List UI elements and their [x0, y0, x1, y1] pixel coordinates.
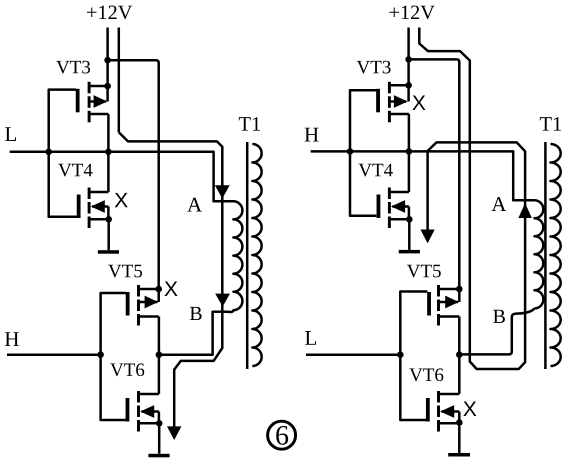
- junction VT3 drain at +12V (left): [104, 83, 111, 90]
- ground under VT4 (left): [98, 250, 119, 254]
- X mark on VT4 (left): [115, 193, 128, 207]
- transistor VT6 (left): [126, 391, 160, 432]
- node VT3/VT4 midpoint (left): [105, 149, 112, 156]
- wire +12V rail (right): [407, 28, 410, 86]
- junction VT4 source (left): [105, 216, 112, 223]
- current arrow to ground below VT6 (left): [167, 426, 181, 440]
- X mark on VT3 (right): [412, 96, 425, 110]
- junction VT6 source (right): [456, 419, 463, 426]
- label VT4 (right): [359, 164, 393, 177]
- wire node to winding A top (right): [409, 151, 535, 200]
- wire +12V to winding bottom tap (right): [419, 28, 525, 370]
- +12V supply label (right): [390, 6, 435, 20]
- label A winding (right): [492, 197, 507, 211]
- label VT5 (right): [407, 265, 441, 278]
- ground under VT4 (right): [399, 250, 420, 254]
- wire +12V to center tap with current arrows (left): [119, 132, 223, 426]
- wire VT4 source to ground (left): [107, 219, 110, 250]
- label A winding (left): [187, 198, 202, 212]
- junction +12V rail to VT5 branch (left): [104, 57, 111, 64]
- X mark on VT5 (left): [164, 282, 177, 296]
- L input label (right): [305, 331, 316, 345]
- figure number 6 in circle: [268, 421, 296, 449]
- junction VT5 source / VT6 drain / winding B (left): [156, 351, 163, 358]
- transistor VT5 (left): [126, 285, 159, 326]
- label VT6 (left): [110, 363, 144, 376]
- wire current path node to VT4 ground arrow (right): [426, 151, 429, 230]
- transformer core (left): [246, 142, 249, 369]
- current arrow into winding A region (left): [215, 185, 230, 198]
- wire +12V center-tap feed upper segment (left): [118, 28, 121, 133]
- junction VT4 source (right): [406, 216, 413, 223]
- transistor VT6 (right): [426, 391, 460, 432]
- wire +12V to VT5 drain (left): [108, 60, 159, 289]
- current arrow up at winding A (right): [518, 203, 531, 218]
- junction VT6 source (left): [156, 420, 163, 427]
- node VT3/VT4 midpoint (right): [406, 148, 413, 155]
- label B winding (right): [493, 310, 505, 323]
- transistor VT4 (right): [377, 188, 410, 229]
- wire winding bottom to VT5 source junction (right): [459, 308, 534, 354]
- wire VT6 source to ground (right): [458, 423, 461, 454]
- X mark on VT6 (right): [463, 402, 476, 416]
- transistor VT3 (left): [76, 82, 109, 123]
- junction VT3 drain at +12V (right): [405, 82, 412, 89]
- wire gate bus VT5/VT6 (right): [400, 292, 427, 421]
- wire H input (right): [311, 150, 409, 153]
- wire gate bus VT3/VT4 (left): [49, 90, 77, 217]
- wire VT4 source to ground (right): [408, 219, 411, 250]
- transistor VT3 (right): [376, 82, 409, 123]
- current arrow down through VT4 (right): [421, 230, 435, 244]
- label VT6 (right): [409, 368, 443, 381]
- junction VT5 source / VT6 drain / winding B (right): [456, 351, 463, 358]
- wire node to winding A top (left): [108, 152, 235, 202]
- secondary winding (right): [551, 144, 561, 366]
- wire +12V to VT5 drain (right): [409, 59, 460, 289]
- transistor VT5 (right): [427, 285, 459, 326]
- wire VT6 drain to junction (left): [158, 355, 161, 394]
- +12V supply label (left): [87, 6, 132, 20]
- junction H input to gate bus (left): [97, 351, 104, 358]
- label VT4 (left): [58, 164, 92, 177]
- label VT3 (right): [357, 61, 391, 74]
- transformer core (right): [544, 142, 547, 369]
- wire gate bus VT3/VT4 (right): [350, 90, 376, 216]
- label VT3 (left): [56, 61, 90, 74]
- junction VT5 drain (right): [456, 286, 463, 293]
- winding A+B primary (right): [535, 200, 544, 308]
- ground under VT6 (right): [448, 453, 470, 457]
- wire L input (right): [306, 353, 400, 356]
- wire VT3 source to node (left): [107, 114, 110, 152]
- wire gate bus VT5/VT6 (left): [101, 293, 126, 420]
- wire VT5 source to junction (left): [158, 317, 161, 355]
- wire VT6 source to ground (left): [158, 423, 161, 454]
- wire junction to winding B top (left): [159, 312, 230, 355]
- transistor VT4 (left): [77, 188, 109, 229]
- H input label (right): [305, 128, 319, 142]
- label B winding (left): [190, 307, 202, 320]
- junction +12V rail to VT5 branch (right): [405, 56, 412, 63]
- junction H input to gate bus (right): [347, 148, 354, 155]
- wire +12V rail (left): [106, 28, 109, 87]
- winding A primary (left): [227, 201, 242, 312]
- ground under VT6 (left): [148, 454, 169, 458]
- wire VT6 drain to junction (right): [458, 355, 461, 394]
- junction L input to gate bus (left): [45, 149, 52, 156]
- H input label (left): [5, 332, 19, 346]
- current arrow at winding B top (left): [215, 294, 230, 307]
- wire node to VT4 drain (left): [107, 152, 110, 192]
- label VT5 (left): [108, 265, 142, 278]
- wire VT3 source to node (right): [408, 114, 411, 151]
- L input label (left): [5, 127, 16, 141]
- transformer T1 label (right): [540, 117, 561, 131]
- transformer T1 label (left): [239, 117, 260, 131]
- wire L input (left): [10, 151, 109, 154]
- junction L input to gate bus (right): [397, 351, 404, 358]
- junction VT5 drain (left): [155, 286, 162, 293]
- wire node to VT4 drain (right): [408, 151, 411, 192]
- secondary winding (left): [252, 144, 261, 366]
- wire VT5 source to junction (right): [458, 317, 461, 355]
- wire H input (left): [7, 353, 101, 356]
